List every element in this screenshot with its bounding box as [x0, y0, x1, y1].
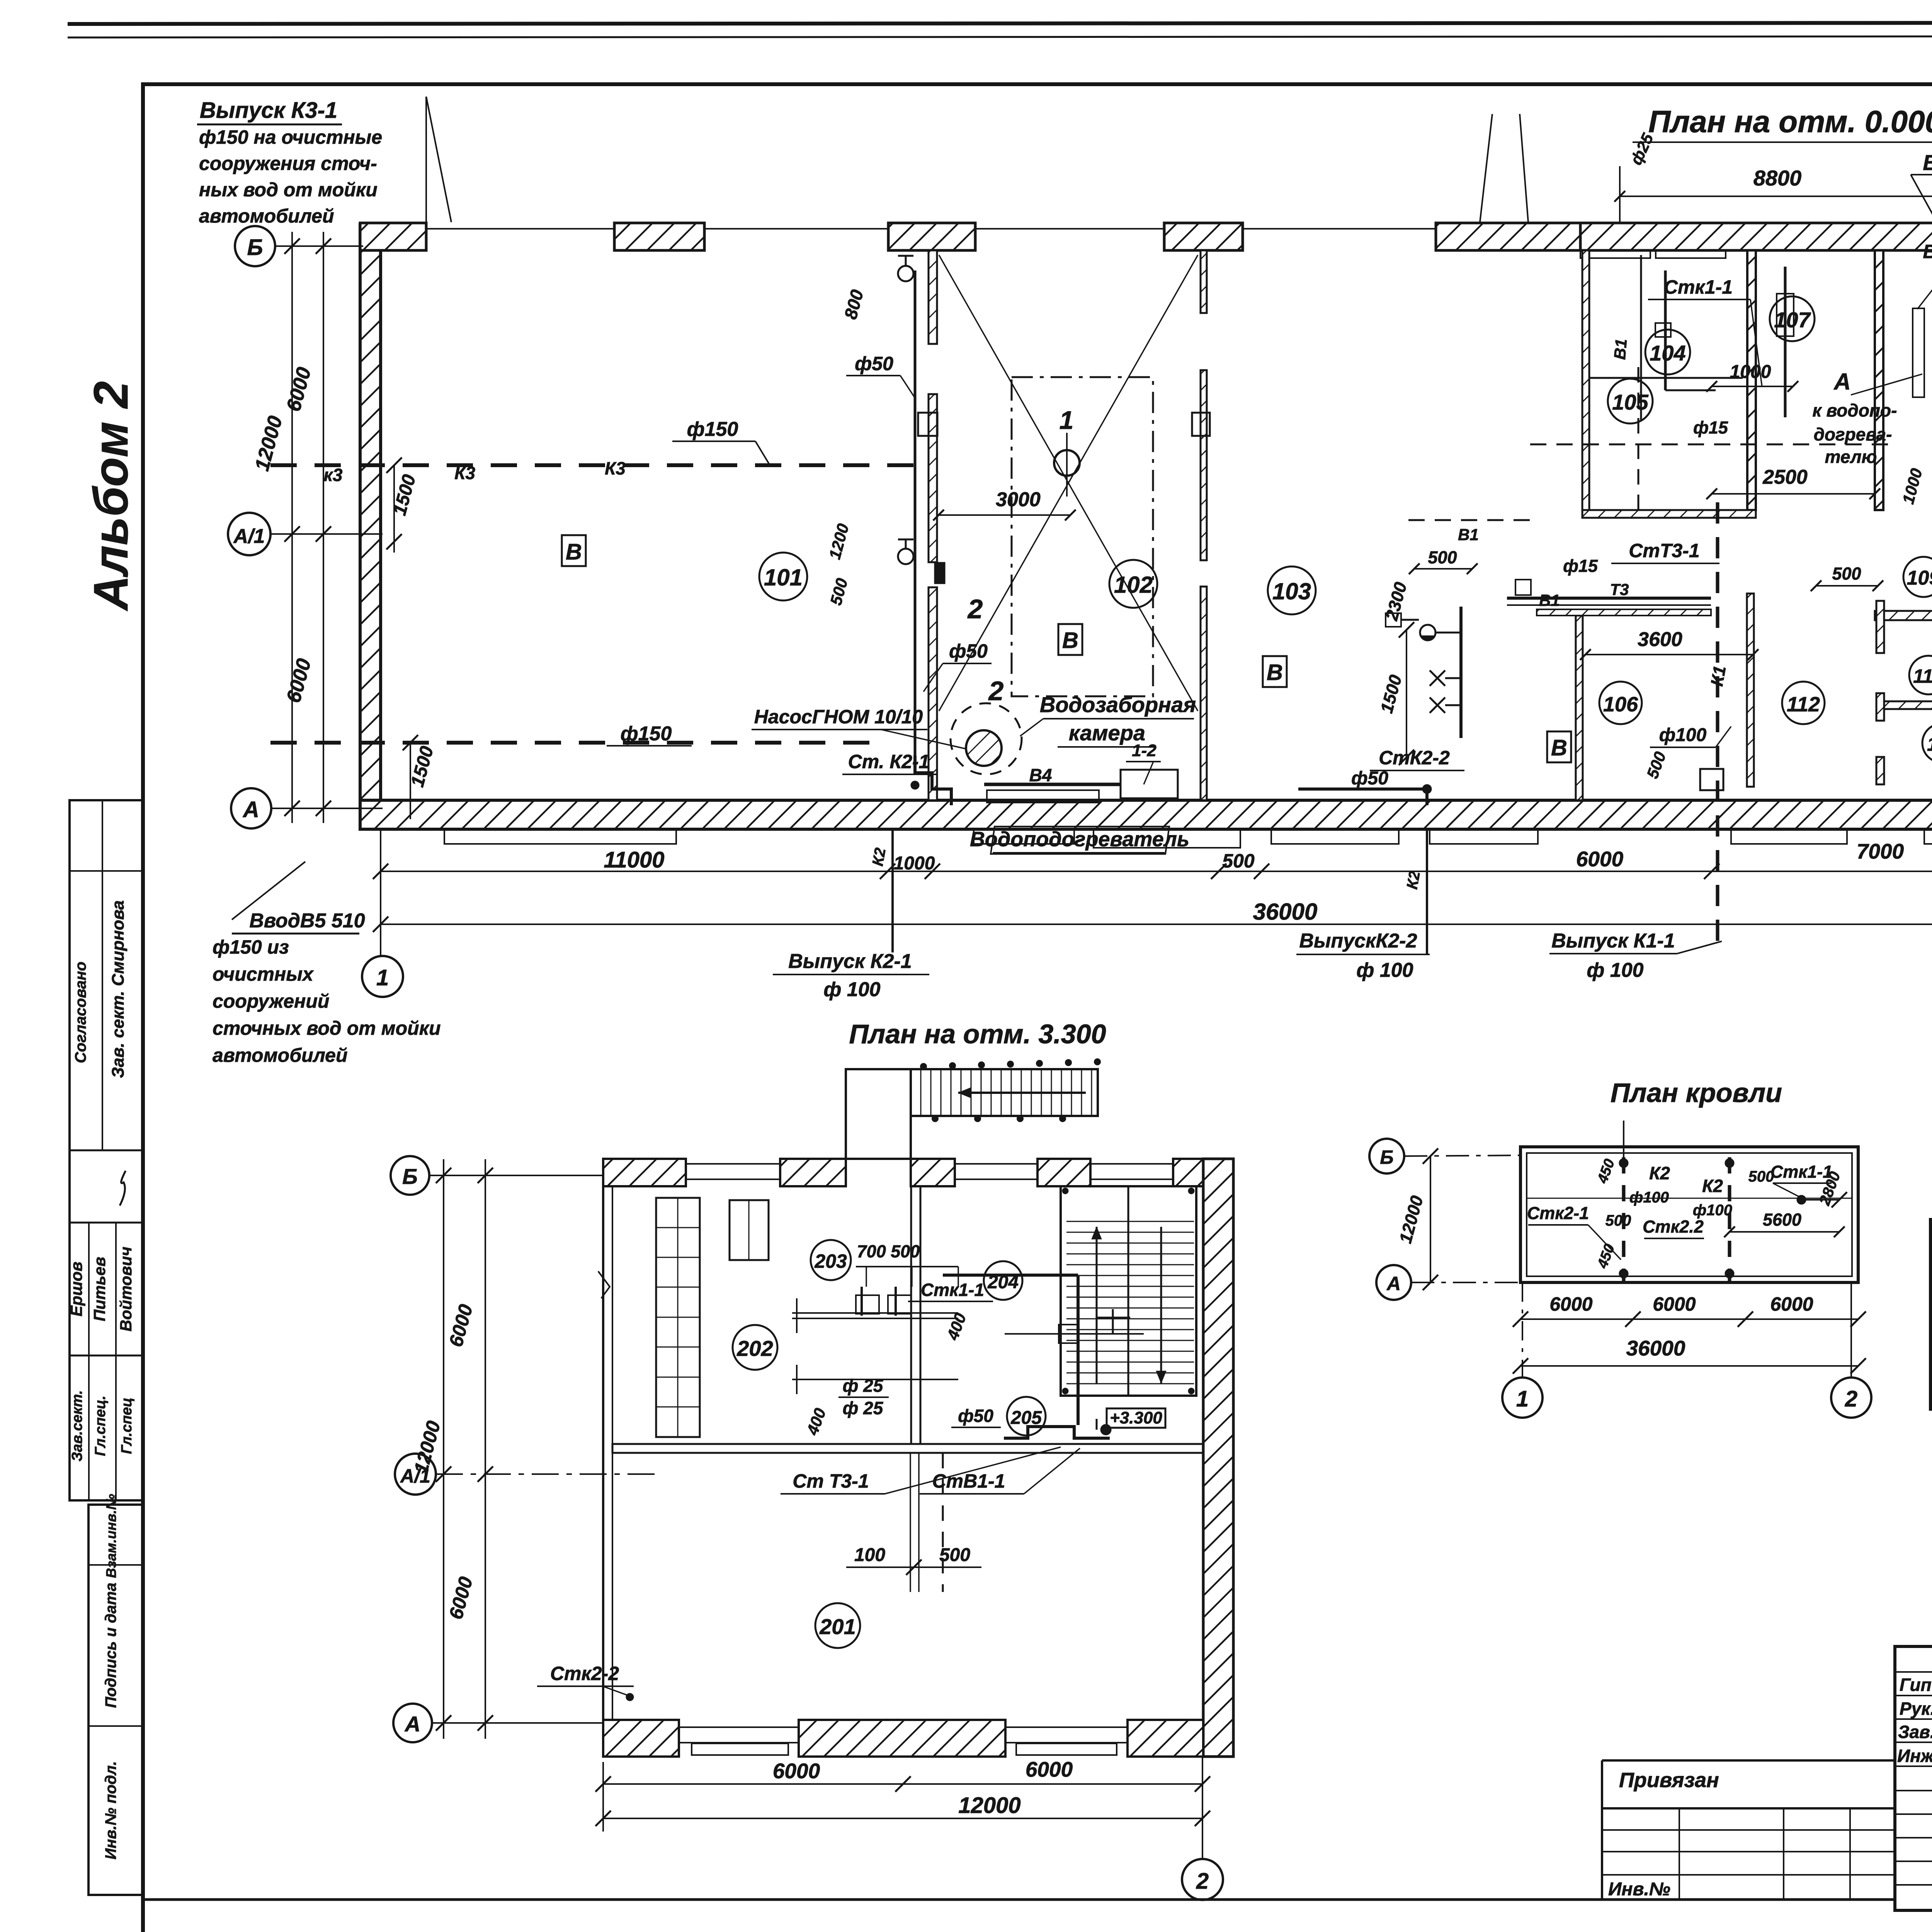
svg-text:6000: 6000: [773, 1759, 820, 1783]
svg-text:6000: 6000: [1770, 1293, 1813, 1315]
svg-text:В1: В1: [1539, 591, 1560, 609]
svg-text:НасосГНОМ 10/10: НасосГНОМ 10/10: [754, 706, 923, 728]
svg-text:В4: В4: [1029, 765, 1052, 785]
svg-text:автомобилей: автомобилей: [213, 1044, 348, 1066]
svg-text:1500: 1500: [1376, 673, 1405, 715]
svg-text:500: 500: [1832, 564, 1861, 583]
svg-text:Подпись и дата: Подпись и дата: [102, 1583, 119, 1708]
svg-text:К3: К3: [454, 463, 475, 483]
svg-text:201: 201: [819, 1614, 855, 1639]
svg-text:700 500: 700 500: [857, 1242, 920, 1261]
svg-text:Водозаборная: Водозаборная: [1040, 692, 1196, 717]
svg-text:6000: 6000: [1549, 1293, 1592, 1315]
svg-text:А: А: [1386, 1273, 1401, 1294]
svg-text:Взам.инв.№: Взам.инв.№: [103, 1494, 119, 1578]
svg-text:Зав. сект. Смирнова: Зав. сект. Смирнова: [109, 900, 128, 1078]
svg-text:500: 500: [939, 1545, 970, 1565]
svg-text:Зав.сект.: Зав.сект.: [69, 1390, 85, 1461]
svg-text:450: 450: [1594, 1242, 1618, 1271]
svg-text:ных вод от мойки: ных вод от мойки: [199, 179, 378, 201]
svg-text:СтТ3-1: СтТ3-1: [1629, 540, 1699, 561]
svg-text:Выпуск К2-1: Выпуск К2-1: [788, 950, 912, 973]
svg-text:В: В: [1551, 735, 1567, 760]
svg-text:к водопо-: к водопо-: [1813, 400, 1897, 420]
svg-text:800: 800: [840, 287, 867, 321]
svg-text:1500: 1500: [407, 744, 438, 789]
svg-text:А: А: [1833, 369, 1850, 395]
svg-text:Стк1-1: Стк1-1: [1770, 1162, 1832, 1182]
svg-text:112: 112: [1787, 693, 1820, 716]
svg-text:1200: 1200: [825, 522, 852, 561]
svg-text:СтК2-2: СтК2-2: [1379, 747, 1450, 769]
svg-text:500: 500: [827, 576, 851, 607]
svg-text:104: 104: [1650, 341, 1685, 365]
svg-text:ф150 на очистные: ф150 на очистные: [199, 126, 382, 148]
svg-text:6000: 6000: [1026, 1757, 1073, 1781]
svg-text:ф50: ф50: [855, 353, 893, 374]
svg-text:ф15: ф15: [1563, 556, 1598, 576]
svg-text:ф 100: ф 100: [1356, 959, 1413, 981]
svg-text:204: 204: [987, 1272, 1019, 1293]
svg-text:1: 1: [1516, 1386, 1529, 1412]
svg-text:2: 2: [1196, 1869, 1209, 1894]
svg-text:12000: 12000: [958, 1793, 1020, 1818]
svg-text:2: 2: [1845, 1386, 1857, 1412]
svg-text:ф50: ф50: [1351, 768, 1388, 789]
svg-text:6000: 6000: [445, 1302, 477, 1349]
svg-text:Питьев: Питьев: [90, 1257, 109, 1321]
svg-text:Стк2-2: Стк2-2: [550, 1663, 619, 1684]
svg-text:ф50: ф50: [958, 1406, 993, 1426]
svg-text:500: 500: [1643, 749, 1669, 781]
svg-text:12000: 12000: [410, 1418, 445, 1476]
svg-text:450: 450: [1594, 1157, 1618, 1186]
svg-text:202: 202: [736, 1336, 773, 1361]
svg-text:109: 109: [1907, 567, 1932, 589]
svg-text:догрева-: догрева-: [1814, 424, 1892, 444]
svg-text:камера: камера: [1069, 721, 1145, 745]
svg-text:ф50: ф50: [949, 640, 988, 662]
svg-text:План на отм. 0.000: План на отм. 0.000: [1648, 104, 1932, 139]
svg-text:Зав.сект: Зав.сект: [1898, 1722, 1932, 1742]
svg-text:12000: 12000: [1395, 1194, 1427, 1245]
svg-text:сооружения сточ-: сооружения сточ-: [199, 153, 377, 174]
svg-text:Стк1-1: Стк1-1: [1664, 276, 1733, 298]
svg-text:к3: к3: [324, 465, 343, 485]
svg-text:2: 2: [988, 676, 1004, 706]
svg-text:1: 1: [1060, 406, 1074, 434]
svg-text:Рук.бр.: Рук.бр.: [1900, 1699, 1932, 1719]
svg-text:А: А: [242, 797, 259, 822]
svg-text:ф100: ф100: [1659, 725, 1707, 745]
svg-text:6000: 6000: [282, 365, 316, 414]
svg-text:6000: 6000: [282, 656, 316, 705]
svg-text:Альбом 2: Альбом 2: [84, 381, 138, 612]
svg-text:100: 100: [854, 1545, 885, 1565]
svg-text:Т3: Т3: [1610, 580, 1629, 599]
svg-text:203: 203: [814, 1250, 847, 1272]
svg-text:11000: 11000: [604, 847, 665, 872]
svg-text:102: 102: [1114, 572, 1153, 598]
svg-text:К1: К1: [1707, 664, 1730, 688]
svg-text:6000: 6000: [1576, 847, 1624, 871]
svg-text:1: 1: [376, 965, 389, 990]
svg-text:В: В: [566, 539, 582, 565]
svg-text:Б: Б: [1380, 1146, 1393, 1168]
svg-text:К2: К2: [1649, 1163, 1670, 1183]
svg-text:400: 400: [943, 1311, 969, 1343]
svg-text:6000: 6000: [1653, 1293, 1696, 1315]
svg-text:Инв.№: Инв.№: [1608, 1879, 1670, 1900]
svg-text:ф 100: ф 100: [1587, 959, 1643, 981]
svg-text:ф100: ф100: [1693, 1202, 1732, 1219]
svg-text:Стк1-1: Стк1-1: [921, 1280, 984, 1300]
svg-text:106: 106: [1603, 693, 1638, 716]
svg-text:36000: 36000: [1626, 1336, 1685, 1360]
svg-text:ф15: ф15: [1693, 418, 1728, 437]
svg-text:Б: Б: [402, 1164, 418, 1189]
svg-text:ф100: ф100: [1629, 1189, 1669, 1206]
svg-text:7000: 7000: [1857, 839, 1904, 863]
svg-text:+3.300: +3.300: [1110, 1408, 1162, 1427]
svg-text:В: В: [1267, 660, 1283, 685]
svg-text:400: 400: [803, 1406, 829, 1438]
svg-text:500: 500: [1222, 850, 1255, 872]
svg-text:Гип: Гип: [1900, 1675, 1932, 1695]
svg-text:Ст Т3-1: Ст Т3-1: [793, 1470, 869, 1492]
svg-text:6000: 6000: [445, 1574, 477, 1621]
svg-text:ф 25: ф 25: [843, 1398, 884, 1418]
svg-text:К2: К2: [869, 847, 889, 867]
svg-text:Б: Б: [247, 235, 263, 260]
svg-text:очистных: очистных: [213, 963, 314, 985]
svg-text:Привязан: Привязан: [1619, 1769, 1719, 1792]
svg-text:Ввод В14 ф60×2,5 в: Ввод В14 ф60×2,5 в: [1923, 150, 1932, 175]
svg-text:ф150: ф150: [687, 418, 738, 440]
svg-text:автомобилей: автомобилей: [199, 205, 334, 227]
svg-text:телю: телю: [1825, 447, 1877, 467]
svg-text:500: 500: [1605, 1212, 1631, 1229]
svg-text:Водоподогреватель: Водоподогреватель: [970, 828, 1189, 851]
svg-text:В1: В1: [1458, 526, 1479, 544]
svg-text:36000: 36000: [1253, 899, 1318, 925]
svg-text:сточных вод от мойки: сточных вод от мойки: [213, 1017, 441, 1039]
svg-text:3000: 3000: [996, 488, 1041, 511]
svg-text:1000: 1000: [1730, 362, 1771, 382]
svg-text:План кровли: План кровли: [1611, 1078, 1782, 1108]
svg-text:205: 205: [1010, 1408, 1042, 1428]
svg-text:К2: К2: [1403, 870, 1423, 891]
svg-text:Стк2-1: Стк2-1: [1527, 1203, 1589, 1223]
svg-text:Выпуск К3-1: Выпуск К3-1: [200, 98, 337, 123]
svg-text:Ершов: Ершов: [67, 1262, 85, 1316]
svg-text:Ст. К2-1: Ст. К2-1: [848, 751, 930, 772]
svg-text:К3: К3: [605, 458, 626, 478]
svg-text:Водомерный: Водомерный: [1923, 241, 1932, 262]
svg-text:В1: В1: [1611, 338, 1631, 361]
svg-text:110: 110: [1913, 665, 1932, 687]
svg-text:2500: 2500: [1762, 466, 1808, 488]
svg-text:ВводВ5 510: ВводВ5 510: [249, 910, 365, 932]
svg-text:План на отм. 3.300: План на отм. 3.300: [849, 1019, 1106, 1049]
svg-text:5600: 5600: [1763, 1210, 1801, 1230]
svg-text:1000: 1000: [1899, 466, 1926, 506]
svg-text:сооружений: сооружений: [213, 990, 329, 1012]
svg-text:К2: К2: [1702, 1176, 1723, 1196]
svg-text:3600: 3600: [1638, 628, 1682, 651]
svg-text:А/1: А/1: [233, 525, 265, 548]
svg-text:Гл.спец.: Гл.спец.: [92, 1396, 109, 1456]
svg-text:Гл.спец: Гл.спец: [119, 1398, 135, 1454]
svg-text:А: А: [404, 1712, 420, 1736]
svg-text:107: 107: [1774, 308, 1811, 332]
svg-text:105: 105: [1612, 390, 1648, 414]
svg-text:ф 100: ф 100: [823, 978, 880, 1001]
svg-text:Инв.№ подл.: Инв.№ подл.: [102, 1761, 119, 1860]
svg-text:В: В: [1062, 628, 1078, 653]
svg-text:2: 2: [967, 594, 983, 624]
svg-text:ф 25: ф 25: [843, 1376, 884, 1396]
svg-text:Выпуск К1-1: Выпуск К1-1: [1551, 930, 1675, 952]
svg-text:Войтович: Войтович: [117, 1247, 135, 1332]
svg-text:Стк2.2: Стк2.2: [1643, 1217, 1704, 1236]
svg-text:8800: 8800: [1753, 166, 1802, 190]
svg-text:ф150: ф150: [621, 723, 672, 745]
svg-text:103: 103: [1272, 578, 1311, 604]
svg-text:500: 500: [1428, 548, 1457, 567]
svg-text:1000: 1000: [894, 853, 935, 874]
svg-text:Согласовано: Согласовано: [72, 962, 89, 1063]
svg-text:111: 111: [1927, 733, 1932, 755]
svg-text:101: 101: [764, 565, 803, 590]
svg-text:Инженер: Инженер: [1897, 1746, 1932, 1766]
svg-text:ВыпускК2-2: ВыпускК2-2: [1299, 930, 1417, 952]
svg-text:ф150 из: ф150 из: [213, 936, 289, 958]
